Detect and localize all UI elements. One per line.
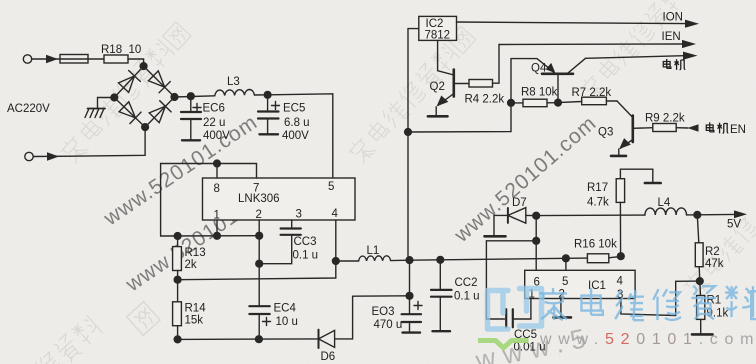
capacitor CC3 xyxy=(256,220,301,267)
terminal AC input top xyxy=(23,55,60,63)
svg-text:2: 2 xyxy=(256,209,262,221)
svg-text:5V: 5V xyxy=(727,219,741,231)
svg-text:400V: 400V xyxy=(203,130,230,142)
IC U3 LNK306 box xyxy=(203,178,356,220)
terminal AC input bottom xyxy=(25,152,70,160)
inductor L4 xyxy=(645,208,687,215)
svg-text:AC220V: AC220V xyxy=(7,103,50,115)
wire pin6 vertical xyxy=(533,216,540,271)
svg-text:7812: 7812 xyxy=(425,30,451,42)
label motor (CJK) xyxy=(663,59,685,70)
svg-text:R4 2.2k: R4 2.2k xyxy=(465,94,505,106)
svg-text:R7 2.2k: R7 2.2k xyxy=(572,87,612,99)
wire pins 1-2 bottom line xyxy=(161,220,263,239)
resistor R13 xyxy=(173,236,182,283)
bridge rectifier diodes xyxy=(111,63,178,131)
ground at D7 xyxy=(485,215,508,236)
svg-text:R18 10: R18 10 xyxy=(101,44,141,56)
watermark logo book pages xyxy=(488,289,542,330)
svg-text:R2: R2 xyxy=(705,246,720,258)
transistor Q4 xyxy=(542,58,586,106)
svg-text:L3: L3 xyxy=(227,76,240,88)
svg-text:400V: 400V xyxy=(282,130,309,142)
inductor L1 xyxy=(336,256,410,261)
wire bottom AC to bridge xyxy=(70,127,145,156)
output IEN xyxy=(499,40,696,48)
svg-text:47k: 47k xyxy=(705,258,724,270)
svg-text:3: 3 xyxy=(296,209,302,221)
svg-text:EN: EN xyxy=(730,124,746,136)
svg-text:6.8 u: 6.8 u xyxy=(284,117,310,129)
svg-text:R1: R1 xyxy=(707,295,722,307)
svg-text:4: 4 xyxy=(332,208,339,220)
IC1 box xyxy=(525,270,635,298)
svg-text:www.520101.com: www.520101.com xyxy=(539,331,756,348)
wire D6 to EO3 node xyxy=(335,292,413,339)
svg-text:R8 10k: R8 10k xyxy=(521,87,558,99)
inductor L3 xyxy=(215,90,255,96)
svg-text:1: 1 xyxy=(214,210,220,222)
svg-text:470 u: 470 u xyxy=(374,319,403,331)
svg-text:CC2: CC2 xyxy=(455,277,478,289)
svg-text:Q4: Q4 xyxy=(531,63,547,75)
svg-text:22 u: 22 u xyxy=(203,117,225,129)
resistor R4 xyxy=(469,80,493,88)
resistor R9 xyxy=(653,124,688,132)
resistor R16 xyxy=(587,254,620,263)
wire top feedback line xyxy=(161,160,257,236)
wire bridge+ to rail xyxy=(175,93,215,100)
svg-text:L4: L4 xyxy=(658,197,671,209)
watermark big blue CJK text xyxy=(539,286,756,320)
svg-text:R16 10k: R16 10k xyxy=(574,239,617,251)
svg-text:10 u: 10 u xyxy=(276,316,298,328)
svg-text:LNK306: LNK306 xyxy=(238,193,280,205)
svg-text:8: 8 xyxy=(214,183,220,195)
svg-text:4.7k: 4.7k xyxy=(587,197,609,209)
svg-text:L1: L1 xyxy=(367,245,380,257)
svg-text:CC3: CC3 xyxy=(294,236,317,248)
capacitor CC2 xyxy=(431,260,452,331)
resistor R18 xyxy=(104,55,128,63)
resistor R2 xyxy=(695,215,703,281)
svg-text:EC6: EC6 xyxy=(203,103,225,115)
output ION xyxy=(457,20,700,28)
resistor R17 with top bar xyxy=(616,169,661,259)
svg-text:EC5: EC5 xyxy=(283,103,305,115)
capacitor CC5 xyxy=(506,299,531,328)
svg-text:IC2: IC2 xyxy=(426,18,444,30)
wire L3 to pin5 drop xyxy=(254,91,332,178)
svg-text:R13: R13 xyxy=(185,247,206,259)
wire R18 to bridge top xyxy=(128,59,144,66)
wire IC2 input vertical xyxy=(405,29,419,261)
resistor R14 xyxy=(173,280,182,343)
capacitor EO3 xyxy=(402,260,422,333)
resistor R7 xyxy=(558,97,617,105)
fuse F1 xyxy=(60,55,104,64)
wire 5V line xyxy=(533,212,645,219)
svg-text:R17: R17 xyxy=(587,182,608,194)
svg-text:0.1 u: 0.1 u xyxy=(454,291,480,303)
ground (hatched) at bridge xyxy=(85,98,114,118)
wire L4 to 5V out xyxy=(687,210,748,218)
ground at IC1 pin2 xyxy=(554,299,572,318)
IC2 7812 box xyxy=(419,16,457,40)
svg-text:EO3: EO3 xyxy=(372,306,395,318)
input motor EN arrow xyxy=(688,124,699,132)
svg-text:D6: D6 xyxy=(321,351,336,363)
wire pin3 to divider xyxy=(621,278,703,316)
resistor R1 xyxy=(692,281,713,334)
wire main 12V rail xyxy=(406,255,587,264)
capacitor EC4 xyxy=(249,236,270,340)
capacitor EC5 xyxy=(258,95,280,135)
svg-text:5: 5 xyxy=(328,181,334,193)
svg-text:5: 5 xyxy=(562,276,568,288)
svg-text:4: 4 xyxy=(617,276,624,288)
wire pin5 lead xyxy=(565,258,567,270)
svg-text:Q3: Q3 xyxy=(598,127,613,139)
transistor Q2 xyxy=(428,70,469,117)
svg-text:R9 2.2k: R9 2.2k xyxy=(645,113,685,125)
svg-text:Q2: Q2 xyxy=(430,81,445,93)
label motor EN (CJK+EN) xyxy=(706,122,728,133)
svg-text:EC4: EC4 xyxy=(274,303,297,315)
wire R13/R14 junction to pin4 xyxy=(178,220,340,280)
wire to CC5 xyxy=(486,241,536,319)
resistor R8 xyxy=(511,99,558,107)
colored watermark layer (over circuit) xyxy=(478,286,756,348)
svg-text:IEN: IEN xyxy=(662,31,681,43)
diode D6 xyxy=(319,330,335,348)
transistor Q3 xyxy=(611,101,653,156)
wire bottom return xyxy=(178,336,319,343)
svg-text:15k: 15k xyxy=(185,315,204,327)
svg-text:D7: D7 xyxy=(512,197,527,209)
wire R4 to IEN xyxy=(493,45,500,84)
wire Q4 emitter feed xyxy=(508,59,556,107)
output motor (dianji) xyxy=(586,52,698,60)
watermark logo green swoosh xyxy=(478,341,529,348)
diode D7 xyxy=(508,208,536,224)
wire R8 branch down to IC2 rail xyxy=(408,103,511,132)
svg-text:0.1 u: 0.1 u xyxy=(293,250,319,262)
svg-text:ION: ION xyxy=(663,12,683,24)
wire IC2 out to Q2 collector xyxy=(438,40,454,75)
svg-text:2k: 2k xyxy=(185,259,197,271)
svg-text:R14: R14 xyxy=(185,303,207,315)
capacitor EC6 xyxy=(181,96,201,140)
